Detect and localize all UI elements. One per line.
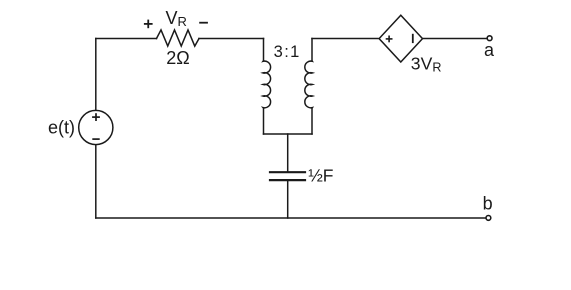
wire top-left horizontal xyxy=(96,38,157,40)
wire dependent source to terminal a xyxy=(423,38,487,40)
wire bracket joining winding bottoms xyxy=(264,133,313,135)
svg-text:3 : 1: 3 : 1 xyxy=(274,43,300,61)
svg-text:e(t): e(t) xyxy=(48,118,75,138)
left vertical wire lower xyxy=(95,145,97,218)
terminal b open circle xyxy=(486,216,491,221)
wire bottom horizontal xyxy=(96,217,486,219)
svg-text:½F: ½F xyxy=(308,166,333,186)
polarity plus of e(t) xyxy=(92,113,100,121)
left vertical wire upper xyxy=(95,39,97,111)
dependent source 3VR diamond xyxy=(379,15,422,62)
svg-text:VR: VR xyxy=(166,8,187,29)
transformer primary winding L1 xyxy=(263,39,271,135)
wire bracket to capacitor xyxy=(287,134,289,171)
polarity minus of VR xyxy=(199,22,208,24)
svg-text:2Ω: 2Ω xyxy=(166,48,189,68)
transformer secondary winding L2 xyxy=(305,39,313,135)
wire capacitor to bottom xyxy=(287,181,289,218)
wire secondary to dependent source xyxy=(312,38,378,40)
wire resistor to transformer primary xyxy=(199,38,264,40)
svg-text:a: a xyxy=(484,40,495,60)
polarity plus inside diamond xyxy=(386,36,393,43)
svg-text:3VR: 3VR xyxy=(411,54,442,75)
svg-text:b: b xyxy=(483,194,493,214)
voltage source e(t) circle xyxy=(79,110,113,144)
resistor R (2 ohm) zigzag xyxy=(157,30,200,46)
polarity bar inside diamond xyxy=(412,34,414,43)
terminal a open circle xyxy=(487,36,492,41)
capacitor C plates (1/2 F) xyxy=(270,172,305,180)
polarity plus of VR xyxy=(144,20,153,29)
polarity minus of e(t) xyxy=(92,138,99,140)
